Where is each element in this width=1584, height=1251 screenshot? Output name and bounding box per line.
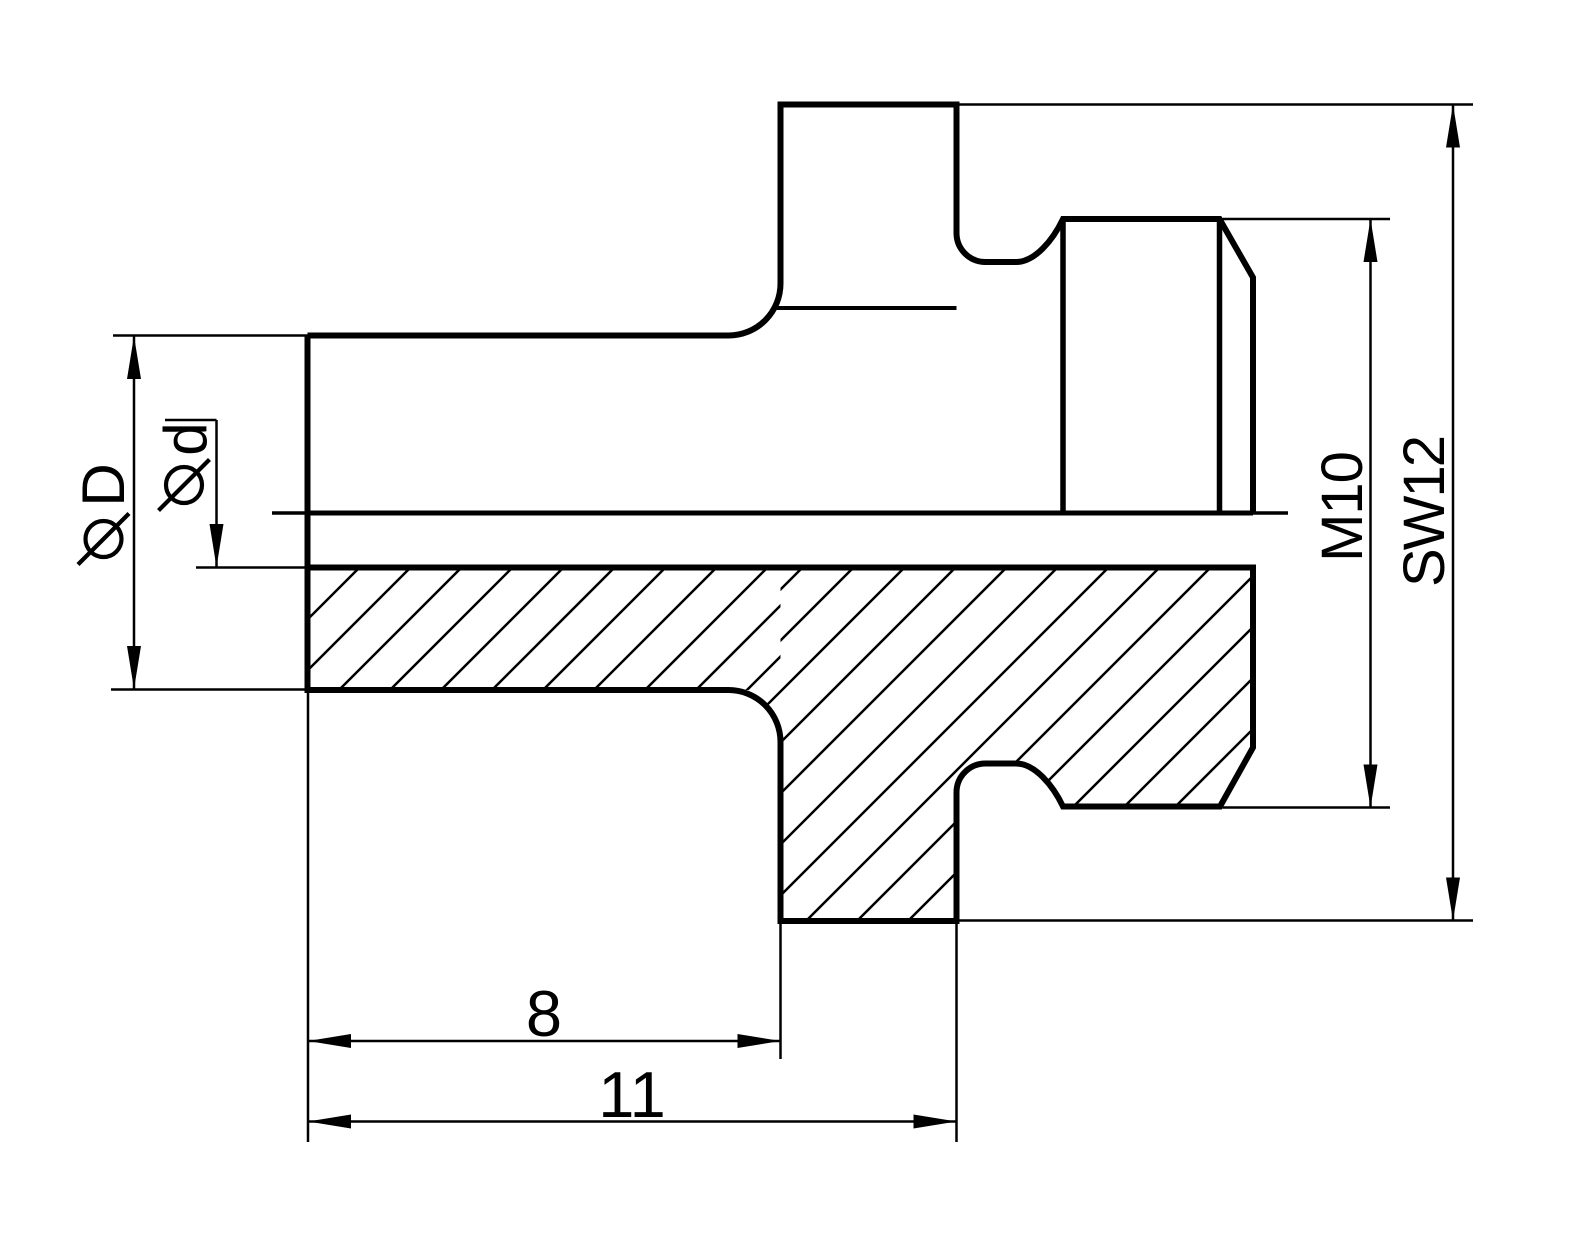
- svg-text:d: d: [152, 422, 219, 455]
- centerline thick: [308, 511, 1254, 516]
- dimension: diameter D: [111, 336, 308, 690]
- dimension: SW12: [960, 105, 1474, 921]
- hatch lines region A (pipe wall section band): [176, 560, 928, 700]
- svg-text:M10: M10: [1310, 452, 1375, 562]
- section (hatch region) outline: [308, 568, 1254, 922]
- dimension: 11: [308, 692, 957, 1142]
- hex silhouette line: [775, 306, 957, 310]
- thread root vertical: [1217, 219, 1223, 513]
- upper external outline: [308, 105, 1254, 514]
- svg-text:11: 11: [598, 1058, 665, 1131]
- dimension: diameter d: [165, 420, 308, 568]
- centerline thin extensions: [272, 511, 1288, 515]
- left face: [305, 336, 311, 691]
- thread start vertical: [1060, 219, 1066, 513]
- hatch lines region B (boss + thread section): [430, 550, 1432, 940]
- svg-text:D: D: [70, 463, 137, 506]
- svg-text:8: 8: [526, 977, 562, 1050]
- svg-text:SW12: SW12: [1392, 437, 1457, 587]
- dimension: M10: [1223, 219, 1391, 808]
- dimension: 8: [308, 921, 781, 1059]
